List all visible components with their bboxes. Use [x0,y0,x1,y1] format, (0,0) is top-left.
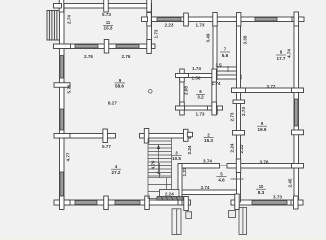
svg-text:2.24: 2.24 [187,145,192,154]
stair entrance hatched sill [157,197,183,201]
svg-text:4.76: 4.76 [151,160,156,169]
dimension tick x237 wall y179 [231,178,244,180]
fraction bar room9b [257,125,267,127]
svg-text:4.74: 4.74 [287,49,292,58]
svg-text:2.45: 2.45 [288,178,293,187]
svg-text:17.7: 17.7 [277,56,286,61]
wall room10 north [227,164,297,169]
wall room6 north [180,74,216,78]
log joint room11 south middle [104,40,109,54]
log joint room11 SW horizontal [54,44,71,49]
log joint east wall y132 [292,130,304,135]
fraction bar room4 [111,168,121,170]
wall corridor north [213,75,241,79]
log joint room8 south x238 [232,88,246,93]
svg-text:1.73: 1.73 [153,29,158,38]
svg-text:3.72: 3.72 [267,84,276,89]
porch post left [186,212,192,219]
svg-text:1.73: 1.73 [196,23,205,28]
wall south-left [58,200,191,205]
log joint SE corner horizontal [291,200,303,205]
log joint x237 wall y101 tick [233,100,245,104]
log joint south-left east end [184,197,189,211]
wall room7 south [215,67,239,71]
svg-text:3.74: 3.74 [203,159,212,164]
svg-text:2.76: 2.76 [84,54,93,59]
svg-text:3.73: 3.73 [273,195,282,200]
fraction bar room11 [103,24,113,26]
staircase direction arrow shaft [158,147,160,172]
window east wall [295,99,299,126]
svg-text:1.74: 1.74 [212,81,221,86]
log joint room11 SE [147,40,152,54]
log joint north-B stub left [142,17,148,22]
window north-B west [157,18,181,22]
svg-text:2.24: 2.24 [230,143,235,152]
log joint south-right x237 [235,194,239,210]
sill dimension label box 2.24 [160,190,180,197]
window north-B east [255,18,277,22]
log joint room4 north east end stub [187,132,192,137]
wall north-A (room 11 north wall) [58,4,152,9]
porch post right [229,211,236,218]
log joint room4 north x146 [144,129,149,144]
fraction bar room10 [256,188,266,190]
svg-text:27.2: 27.2 [112,170,121,175]
door threshold room5 north [220,165,228,167]
svg-text:4.77: 4.77 [65,152,70,161]
south porch left rails [172,209,181,235]
south porch right rails [239,208,247,235]
entry steps hatch (top-left porch) [47,11,60,41]
log joint north-B x186 [184,13,189,26]
stove circle [149,90,153,94]
svg-text:2.74: 2.74 [241,107,246,116]
wall room6 west [180,74,184,111]
wall room4 north west segment [58,134,116,139]
window south-left west [75,201,97,205]
svg-text:2.23: 2.23 [165,23,174,28]
wall room4 north east segment (stair bay) [140,134,191,139]
log joint room4 north x105 [103,129,108,143]
staircase lower flight rail [167,178,172,200]
wall middle x237 [237,21,241,202]
staircase east stringer [171,138,173,178]
log joint room6 south east end horizontal [208,106,223,110]
fraction bar room5 [217,176,227,178]
staircase treads lower flight [148,178,172,199]
svg-text:2.73: 2.73 [230,112,235,121]
svg-text:1.23: 1.23 [182,167,187,176]
log joint west wall y85 [54,83,70,88]
svg-text:15.3: 15.3 [204,138,213,143]
log joint north-B west [147,13,152,27]
svg-text:15.3: 15.3 [104,26,113,31]
log joint room6 NW horizontal [176,74,189,78]
dimension tick room7 south x228 [227,66,229,72]
svg-text:2.24: 2.24 [165,191,174,196]
log joint SW corner vertical [60,196,65,210]
svg-text:3.2: 3.2 [197,94,204,99]
log joint room6 SE vertical [212,102,217,115]
svg-text:3.49: 3.49 [206,33,211,42]
svg-text:2.08: 2.08 [183,86,188,95]
log joint south-left x106 [104,196,109,210]
log joint room6 SW horizontal [176,106,185,110]
svg-text:10.5: 10.5 [172,156,181,161]
wall room11 east [147,4,152,49]
wall stair-bay east [178,164,182,206]
log joint room8 south east [292,88,304,93]
window room11 south-west [75,45,98,49]
svg-text:5.76: 5.76 [66,84,71,93]
svg-text:10: 10 [259,184,264,189]
log joint SW corner horizontal [54,200,70,205]
fraction bar room2 [204,136,214,138]
log joint x237 wall y133 [233,131,245,136]
svg-text:2.22: 2.22 [239,144,244,153]
fraction bar room9 [115,82,126,84]
svg-text:2.76: 2.76 [122,54,131,59]
svg-text:1.5: 1.5 [215,62,222,67]
window south-right [252,201,287,205]
window west wall lower [60,172,64,196]
svg-text:3.74: 3.74 [201,185,210,190]
svg-text:8.27: 8.27 [108,101,117,106]
svg-text:4.6: 4.6 [218,178,225,183]
svg-text:3.76: 3.76 [260,160,269,165]
svg-text:8.3: 8.3 [258,190,265,195]
wall room7 west [213,21,217,80]
window room11 south-east [116,45,139,49]
svg-text:19.5: 19.5 [258,127,267,132]
svg-text:58.6: 58.6 [115,83,124,88]
svg-text:1.56: 1.56 [192,76,201,81]
wall room8 south [232,88,297,93]
staircase direction arrow tail [157,172,161,175]
log joint NW corner horizontal [54,4,62,9]
log joint NE corner horizontal [292,17,304,22]
svg-text:5.6: 5.6 [222,53,229,58]
log joint south-left x147 [145,196,150,210]
wall east outer [294,17,299,205]
window south-left east [115,201,140,205]
log joint NE corner vertical [294,12,299,26]
svg-text:5.73: 5.73 [102,12,111,17]
fraction bar room8 [276,54,286,56]
wall room6 south [176,106,217,110]
svg-text:5.77: 5.77 [102,144,111,149]
svg-text:3.38: 3.38 [243,35,248,44]
svg-text:1.74: 1.74 [192,66,201,71]
log joint north-A middle [104,0,109,12]
window west wall middle [60,109,64,130]
log joint NW corner vertical [59,0,64,12]
wall room6 east [212,74,216,111]
fraction bar room6 [196,93,205,95]
fraction bar room3 [172,155,182,157]
staircase flight divider [159,163,161,178]
svg-text:2.74: 2.74 [66,15,71,24]
log joint room4 north east end vertical [184,129,189,141]
wall room5 south [180,190,240,195]
log joint north-B x215 [213,13,217,27]
staircase west stringer [147,138,149,199]
wall west outer [60,4,65,206]
log joint room10 north east [292,164,304,169]
wall north-B (east wing north wall) [149,17,298,22]
log joint room6 NW vertical [180,69,185,82]
fraction bar room7 [220,51,230,53]
wall room5 north [182,164,220,169]
log joint room10 north x238 [236,159,240,173]
wall south-right [231,200,297,205]
svg-text:1.73: 1.73 [196,111,205,116]
log joint north-A east [147,0,152,12]
staircase direction arrow head [157,144,160,149]
log joint west wall y136 [54,134,70,139]
window west wall upper [60,56,64,79]
log joint room6 SW vertical [180,102,185,115]
staircase treads upper flight [148,141,172,176]
log joint SE corner vertical [294,196,299,209]
log joint room6 south east end stub down [213,107,217,114]
log joint north-B x238 [237,13,241,27]
log joint room6 NE vertical [212,69,217,82]
wall room11 south [58,44,156,49]
svg-text:11: 11 [106,20,111,25]
